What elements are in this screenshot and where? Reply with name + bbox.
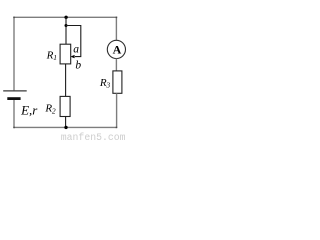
node dot top of R1 branch	[64, 16, 67, 19]
resistor R3	[113, 71, 122, 93]
wire R1 to R2	[65, 64, 67, 97]
svg-text:manfen5.com: manfen5.com	[61, 132, 126, 141]
svg-text:1: 1	[53, 53, 57, 62]
svg-text:A: A	[113, 43, 122, 57]
svg-text:E,r: E,r	[20, 102, 38, 117]
battery E,r long plate	[3, 90, 27, 92]
svg-text:b: b	[75, 59, 81, 71]
resistor R2	[60, 96, 70, 116]
resistor R1	[60, 44, 71, 64]
wire top	[14, 16, 117, 18]
wiper arrowhead on R1	[70, 55, 74, 58]
corner darkening top-right	[116, 17, 118, 19]
wire bottom	[14, 126, 117, 128]
corner darkening bottom-left	[13, 127, 15, 129]
node dot tap branch	[65, 24, 68, 27]
wire R2 to bottom	[65, 117, 67, 128]
wire ammeter to R3	[115, 59, 117, 71]
corner darkening bottom-right	[116, 127, 118, 129]
svg-text:2: 2	[52, 106, 56, 115]
wire top node to R1	[65, 17, 67, 44]
wire right upper	[115, 17, 117, 41]
wire left upper	[13, 17, 15, 91]
wire R3 to bottom	[116, 93, 118, 128]
battery E,r short plate	[7, 97, 20, 100]
corner darkening top-left	[13, 17, 15, 19]
wire tap branch	[66, 26, 81, 57]
svg-text:a: a	[73, 43, 79, 55]
ammeter A	[107, 40, 125, 58]
svg-text:3: 3	[105, 81, 110, 90]
wire left lower	[13, 100, 15, 128]
node dot bottom	[64, 126, 67, 129]
